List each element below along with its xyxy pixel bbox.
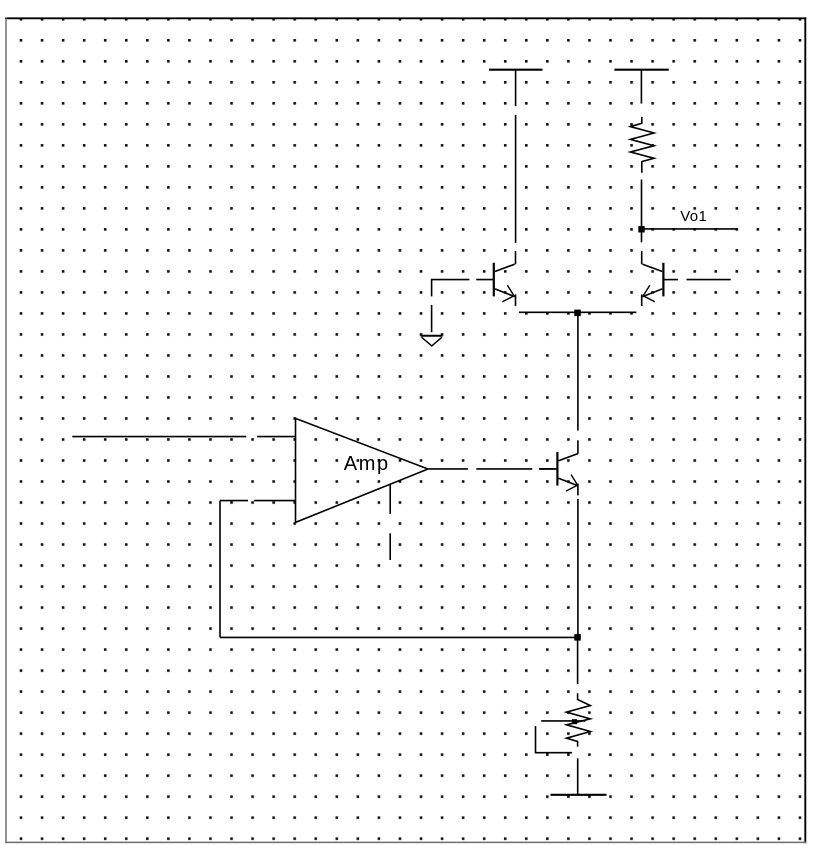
wire node Vo1 output	[642, 228, 737, 230]
wire feedback vertical	[219, 501, 221, 638]
transistor Q3	[540, 440, 578, 495]
border frame right	[804, 17, 806, 843]
wire feedback bottom	[220, 636, 578, 638]
ground (bias)	[421, 336, 443, 346]
transistor Q2	[642, 251, 678, 306]
junction node Vo1	[638, 226, 644, 232]
wire R2 to ground	[577, 758, 579, 794]
border frame bottom	[5, 841, 806, 843]
ground (bottom bar)	[551, 794, 607, 796]
wire R1 to node Vo1	[641, 180, 643, 243]
power VCC1	[489, 70, 543, 106]
border frame left	[5, 17, 7, 843]
svg-text:Amp: Amp	[344, 453, 390, 475]
resistor R1	[630, 117, 654, 173]
wire Q2 base	[687, 279, 731, 281]
transistor Q1	[476, 251, 515, 306]
wire node to R2	[577, 637, 579, 684]
wire VCC1 to Q1 collector	[515, 115, 517, 243]
junction emitter rail	[574, 310, 581, 317]
resistor R2	[567, 693, 591, 746]
wire emitter rail	[519, 311, 637, 313]
wire Q1 base to ground	[432, 280, 470, 333]
wire rail to Q3 collector	[577, 314, 579, 431]
wire wiper return	[536, 726, 573, 753]
power VCC2	[614, 70, 668, 104]
wire noninverting input	[72, 436, 295, 438]
svg-text:Vo1: Vo1	[680, 208, 707, 225]
op-amp Amp	[296, 418, 429, 522]
junction feedback node	[574, 634, 581, 641]
junction wiper	[572, 719, 577, 724]
wire op-amp bottom pin	[389, 485, 391, 560]
wire inverting input	[220, 500, 295, 502]
wire Q3 emitter down	[577, 499, 579, 638]
border frame top	[5, 17, 806, 19]
wire op-amp output to Q3 base	[429, 468, 555, 470]
wire R2 wiper tap	[541, 720, 585, 722]
